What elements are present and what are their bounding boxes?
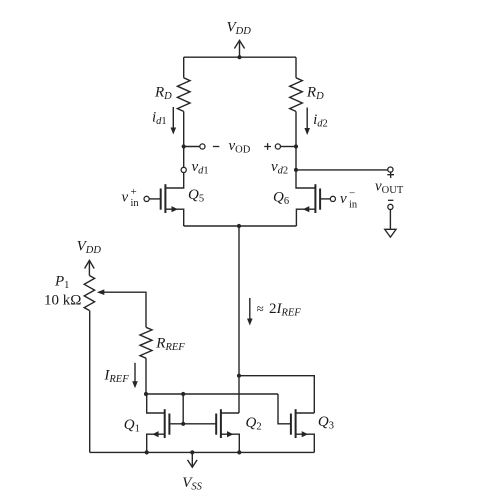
wire gate rail Q1-Q2	[170, 423, 216, 425]
transistor Q1	[147, 409, 170, 452]
wire right branch upper	[295, 57, 297, 78]
junction dot tail	[237, 224, 241, 228]
current arrow id1	[171, 107, 177, 135]
svg-text:Q6: Q6	[273, 189, 289, 207]
svg-text:10 kΩ: 10 kΩ	[44, 293, 81, 309]
terminal circle vOUT minus	[388, 204, 393, 209]
svg-text:Q1: Q1	[124, 417, 140, 435]
wire Q2 drain lead	[221, 412, 239, 414]
wire diode connection vertical	[182, 394, 184, 424]
potentiometer wiper arrow	[97, 289, 146, 295]
svg-text:VSS: VSS	[182, 475, 202, 493]
svg-text:vOD: vOD	[229, 138, 251, 156]
wire RREF to node	[145, 358, 147, 394]
sign minus vOD	[213, 146, 219, 148]
wire vd2 to vOUT terminal	[296, 169, 388, 171]
sign plus vOD	[264, 143, 271, 150]
svg-text:vOUT: vOUT	[375, 179, 404, 197]
svg-text:RD: RD	[306, 85, 324, 103]
svg-text:P1: P1	[54, 274, 69, 292]
wire VSS bottom rail	[90, 451, 315, 453]
wire gate top rail	[146, 393, 278, 395]
wire left column P1 to VSS rail	[89, 311, 91, 453]
terminal circle vOUT plus	[388, 167, 393, 172]
power VDD bottom arrow	[85, 260, 95, 275]
label vin+	[122, 186, 140, 209]
current arrow IREF	[132, 363, 138, 389]
resistor RD (left)	[177, 78, 190, 112]
wire corner to Q3 gate	[278, 394, 291, 424]
power VSS arrow	[188, 452, 198, 467]
terminal circle vin-	[330, 196, 335, 201]
wire top rail	[184, 56, 296, 58]
junction dot gate rail	[181, 422, 185, 426]
svg-text:id2: id2	[313, 112, 328, 130]
svg-text:in: in	[131, 198, 140, 209]
wire right node down to Q6 drain	[296, 147, 315, 189]
wire tail vertical	[238, 226, 240, 413]
svg-text:≈ 2IREF: ≈ 2IREF	[257, 301, 302, 319]
wire left branch to node	[183, 111, 185, 146]
resistor RREF	[140, 327, 152, 358]
svg-text:RD: RD	[154, 85, 172, 103]
svg-text:v: v	[122, 190, 129, 206]
wire vOD right stub	[281, 146, 297, 148]
wire tail rail	[184, 225, 297, 227]
svg-text:VDD: VDD	[227, 19, 252, 37]
transistor Q6	[296, 184, 330, 226]
transistor Q3	[291, 409, 314, 452]
svg-text:RREF: RREF	[155, 336, 185, 354]
svg-text:v: v	[340, 191, 347, 207]
current arrow id2	[304, 108, 310, 136]
node vd1 junction	[182, 144, 186, 148]
wire Q1 drain	[147, 394, 165, 413]
svg-text:vd1: vd1	[192, 159, 209, 177]
svg-text:Q5: Q5	[188, 187, 204, 205]
current arrow 2IREF	[247, 298, 253, 326]
junction dot RREF node	[144, 392, 148, 396]
junction dot Q1 source	[145, 450, 149, 454]
svg-text:+: +	[131, 186, 137, 198]
svg-text:IREF: IREF	[103, 368, 129, 386]
node vd2 tap dot	[294, 168, 298, 172]
transistor Q5	[149, 184, 184, 226]
junction dot VSS tap	[190, 450, 194, 454]
power VDD top arrow	[234, 40, 244, 57]
junction dot tail branch	[237, 374, 241, 378]
node vd2 junction	[294, 144, 298, 148]
wire Q3 drain lead	[296, 412, 315, 414]
svg-text:Q2: Q2	[246, 415, 262, 433]
svg-text:−: −	[349, 188, 355, 200]
wire left branch upper	[183, 57, 185, 78]
sign minus vOUT	[388, 199, 393, 201]
transistor Q2	[216, 409, 239, 452]
wire vOUT minus to ground	[389, 210, 391, 230]
junction dot gate top rail	[181, 392, 185, 396]
svg-text:vd2: vd2	[271, 159, 288, 177]
junction dot Q2 source	[237, 450, 241, 454]
svg-text:in: in	[349, 200, 358, 211]
junction dot top rail	[237, 55, 241, 59]
wire right branch to node	[295, 111, 297, 146]
terminal circle vOD minus	[200, 144, 205, 149]
terminal circle vin+	[144, 196, 149, 201]
terminal circle vd1	[181, 167, 186, 172]
svg-text:id1: id1	[152, 110, 167, 128]
wire vOD left stub	[184, 146, 200, 148]
ground symbol	[385, 229, 396, 237]
sign plus vOUT	[387, 171, 394, 178]
potentiometer P1	[84, 276, 94, 311]
wire left node down to Q5 drain	[165, 147, 183, 189]
label vin-	[340, 188, 358, 211]
svg-text:VDD: VDD	[77, 238, 102, 256]
svg-text:Q3: Q3	[318, 414, 334, 432]
resistor RD (right)	[290, 78, 303, 112]
wire wiper to RREF	[145, 292, 147, 327]
terminal circle vOD plus	[275, 144, 280, 149]
wire branch to Q3 drain	[239, 376, 314, 413]
